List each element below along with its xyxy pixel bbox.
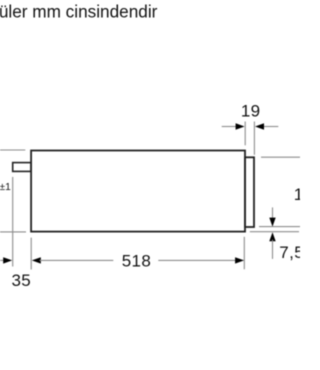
dimension 35 left shaft: [0, 259, 5, 261]
svg-text:±1: ±1: [0, 182, 11, 193]
extension line: 140 top: [261, 156, 300, 158]
extension line: left dimension bottom: [0, 231, 26, 233]
extension line: 19 right: [253, 122, 255, 155]
front panel outline (side view): [245, 157, 254, 227]
dimension 35 right arrow: [3, 257, 12, 263]
dimension 7,5 down arrow: [269, 218, 275, 227]
dimension 518 left arrow: [32, 257, 41, 263]
svg-text:19: 19: [241, 101, 261, 120]
dimension 518 left shaft: [40, 259, 114, 261]
dimension 518 right arrow: [235, 257, 244, 263]
svg-text:35: 35: [11, 271, 31, 290]
dimension 7,5 up arrow: [269, 232, 275, 241]
rear notch outline: [13, 163, 31, 172]
dimension 19 right shaft: [263, 126, 279, 128]
dimension 19 right arrow: [255, 123, 264, 129]
extension line: 518 right: [243, 237, 245, 269]
extension line: 518 left: [30, 238, 32, 270]
appliance body outline: [31, 151, 245, 232]
extension line: 140 bottom / 7,5 top: [259, 226, 300, 228]
svg-text:7,5: 7,5: [279, 243, 300, 262]
svg-text:üler mm cinsindendir: üler mm cinsindendir: [0, 2, 158, 22]
dimension 7,5 upper shaft: [272, 207, 274, 219]
dimension 518 right shaft: [158, 259, 236, 261]
svg-text:140: 140: [294, 185, 300, 204]
extension line: left dimension top: [0, 149, 25, 151]
extension line: notch left vertical: [12, 177, 14, 267]
extension line: 19 left: [244, 122, 246, 146]
extension line: 7,5 bottom: [250, 231, 299, 233]
dimension 19 left shaft: [222, 126, 237, 128]
dimension 19 left arrow: [236, 123, 245, 129]
svg-text:518: 518: [122, 251, 152, 270]
dimension 7,5 lower shaft: [272, 240, 274, 259]
